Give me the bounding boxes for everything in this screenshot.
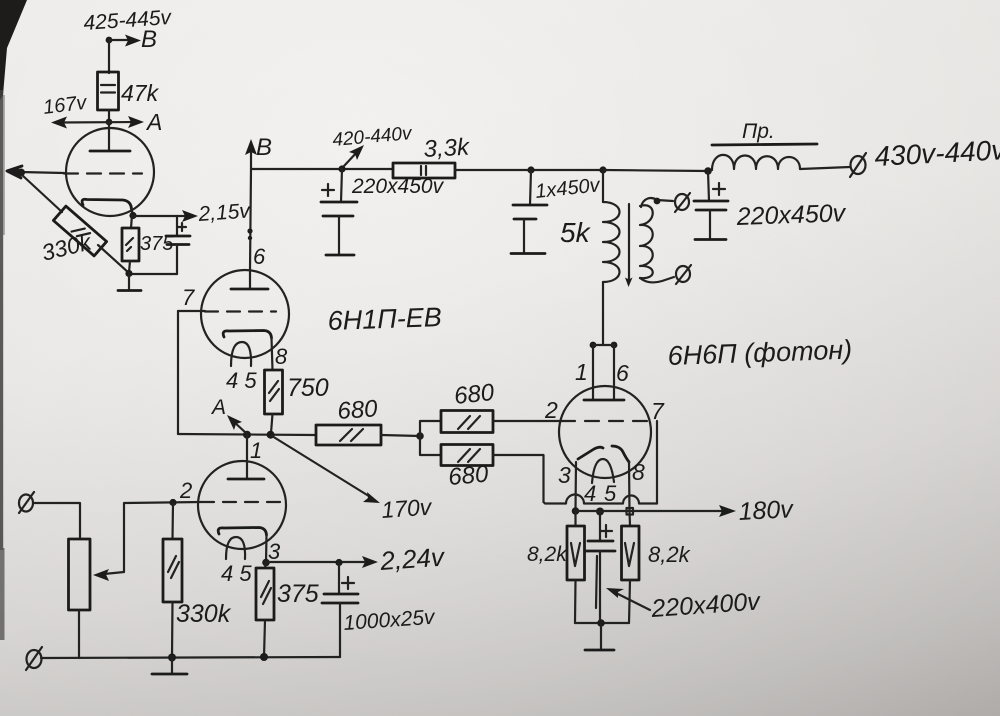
svg-text:A: A (210, 396, 226, 419)
svg-text:5k: 5k (560, 217, 592, 248)
svg-text:2: 2 (544, 397, 558, 423)
label 220x400v (649, 587, 762, 623)
svg-text:1: 1 (250, 438, 262, 463)
label 1x450v (534, 174, 601, 203)
label 375 (R12) (277, 580, 319, 608)
label 6Н1П-ЕВ (327, 302, 442, 336)
transformer T1 secondary (640, 198, 674, 283)
svg-text:7: 7 (651, 398, 665, 424)
label 330k (39, 228, 95, 266)
svg-text:170v: 170v (381, 493, 434, 523)
resistor R1 47k (98, 72, 119, 110)
label 170v (381, 493, 434, 523)
V1 grid (dashed) (64, 172, 142, 174)
ground G4 (695, 238, 726, 241)
svg-text:430v-440v: 430v-440v (874, 134, 1000, 172)
wire 2,24v tap (266, 556, 378, 568)
V4 anode pair leads (590, 342, 618, 400)
label 3,3k (423, 134, 472, 163)
svg-text:3: 3 (558, 462, 571, 488)
output terminal phi (850, 153, 866, 177)
180v rail (572, 505, 736, 517)
label 2,15v (197, 199, 252, 226)
label 47k (121, 80, 160, 106)
node N4 (output cap tap) (704, 167, 712, 175)
resistor R5 750 (265, 338, 283, 433)
svg-text:A: A (145, 109, 162, 135)
label pin 3 (V3) (268, 539, 281, 564)
label A (145, 109, 162, 135)
label pin 6 (V4) (616, 360, 629, 386)
svg-text:330k: 330k (176, 600, 232, 628)
node K1 bottom junction (125, 270, 132, 289)
label pin 2 (V4) (544, 397, 558, 423)
V3 anode plate (228, 478, 264, 481)
choke L1 (Пр.) (712, 144, 817, 170)
ground G2 (326, 254, 354, 257)
label pin 7 (V4) (651, 398, 665, 424)
capacitor C4 220x450v (output) (694, 171, 728, 238)
wire B+ rail left (251, 168, 393, 170)
label 220x450v (output) (735, 199, 847, 231)
label 680 (R6) (337, 395, 379, 425)
label pin 1 (V4) (575, 359, 588, 385)
wire B+ rail right (455, 169, 603, 171)
resistor R11 330k (V3 grid) (163, 499, 182, 657)
svg-text:180v: 180v (738, 495, 795, 526)
resistor R2 375 (V1 cathode bias) (122, 215, 139, 272)
wire V2 grid to node A (178, 311, 205, 434)
svg-text:5: 5 (604, 481, 617, 506)
node N3 (transformer tap) (599, 166, 606, 173)
capacitor C6 1000x25v (322, 562, 358, 657)
wire R1 to node A1 (108, 110, 110, 122)
label pin 8 (V2) (275, 344, 288, 369)
wire V3 grid to pot wiper (93, 502, 201, 581)
svg-text:8,2k: 8,2k (648, 542, 691, 567)
label pin 1 (V3) (250, 438, 262, 463)
V4 cathode right (612, 446, 629, 462)
label 4 5 (V3 heater) (221, 561, 252, 586)
input terminal phi (19, 492, 34, 513)
svg-text:3,3k: 3,3k (423, 134, 472, 163)
label B (supply net) (141, 26, 157, 53)
potentiometer P1 (69, 539, 91, 658)
node A with double arrow (51, 116, 144, 129)
svg-text:4 5: 4 5 (226, 368, 257, 393)
node N2 (1x450 tap) (527, 166, 534, 173)
svg-text:В: В (141, 26, 157, 53)
wire node B to resistor R1 (108, 40, 110, 73)
svg-text:3: 3 (268, 539, 281, 564)
capacitor C5 220x400v (585, 511, 615, 623)
V1 grid lead with input arrow (7, 166, 64, 178)
label 1000x25v (343, 606, 437, 635)
resistor R10 8,2k (right) (622, 511, 640, 623)
V3 heater arc (226, 537, 245, 559)
arrow 170v (272, 436, 380, 503)
label 6Н6П (фотон) (667, 335, 852, 371)
svg-text:220x450v: 220x450v (735, 199, 847, 231)
svg-text:6: 6 (253, 244, 266, 269)
label 8,2k (left) (527, 543, 568, 566)
V3 grid (dashed) (201, 501, 284, 503)
capacitor C1 (cathode bypass) (131, 216, 190, 274)
label pin 3 (V4) (558, 462, 571, 488)
arrow to node label A (227, 415, 246, 433)
svg-text:2: 2 (179, 478, 192, 503)
resistor R6 680 (316, 425, 381, 445)
wire B-node to arrow B (106, 35, 141, 47)
capacitor C3 1x450v (513, 170, 547, 252)
svg-text:375: 375 (277, 580, 319, 608)
label pin 7 (V2) (182, 285, 195, 310)
wire R7 to V4 grid (493, 420, 562, 422)
ground terminal phi (bottom) (26, 647, 42, 670)
svg-text:680: 680 (447, 461, 490, 491)
svg-text:2,15v: 2,15v (197, 199, 252, 226)
transformer T1 core (625, 204, 633, 287)
svg-text:750: 750 (287, 374, 329, 402)
tube V2 envelope 6Н1П-ЕВ (201, 270, 289, 358)
label pin 6 (V2) (253, 244, 266, 269)
V4 grid (dashed) (561, 420, 650, 422)
V3 cathode (218, 528, 266, 536)
ground G5 (585, 649, 614, 652)
svg-text:Пр.: Пр. (742, 120, 775, 143)
V4 heater arch (592, 459, 614, 483)
label 330k (R11) (176, 600, 232, 628)
B supply arrow (middle) (245, 139, 257, 169)
label 750 (287, 374, 329, 402)
svg-text:680: 680 (337, 395, 379, 425)
V4 cathode bottom rail (575, 619, 629, 649)
svg-text:6: 6 (616, 360, 629, 386)
ground G3 (511, 252, 545, 255)
hop wire (cathode return crossing) (544, 421, 658, 504)
wire V1 cathode to node K1 (129, 209, 136, 219)
label 5 (V4) (604, 481, 617, 506)
svg-text:6Н1П-ЕВ: 6Н1П-ЕВ (327, 302, 442, 336)
secondary terminal phi top (675, 193, 690, 212)
secondary terminal phi bottom (676, 265, 691, 284)
V1 cathode (82, 199, 131, 209)
label 8,2k (right) (648, 542, 691, 567)
capacitor C2 220x450v (321, 169, 357, 254)
label B (256, 134, 272, 161)
svg-text:8: 8 (275, 344, 288, 369)
node N1 (420-440v tap) (338, 165, 345, 172)
resistor R7 680 (upper of pair) (420, 411, 493, 437)
svg-text:47k: 47k (121, 80, 160, 106)
label 5k (560, 217, 592, 248)
label 375 (140, 233, 174, 255)
wire node A to V3 anode (246, 435, 248, 479)
resistor R3 330k (grid leak, diagonal) (22, 175, 129, 273)
ground G6 (152, 657, 187, 674)
resistor R4 3,3k (393, 163, 455, 178)
photo edge artifacts (decorative) (0, 0, 27, 640)
arrow to C5 (606, 588, 650, 610)
svg-text:2,24v: 2,24v (378, 541, 447, 576)
label A (node) (210, 396, 226, 419)
label 220x450v (351, 175, 445, 198)
label 4 (V4) (584, 481, 596, 506)
tube V1 envelope (66, 128, 154, 216)
label 680 (R7) (453, 379, 496, 410)
V2 cathode (223, 331, 271, 339)
transformer T1 primary (603, 170, 620, 345)
resistor R12 375 (V3 cathode) (256, 562, 274, 657)
V1 anode plate (90, 150, 130, 153)
svg-text:7: 7 (182, 285, 195, 310)
wire 2,15v tap (133, 210, 198, 222)
bottom ground rail (41, 653, 340, 662)
resistor R9 8,2k (left) (567, 511, 585, 623)
V4 cathode left (578, 447, 603, 459)
wire R8 to hop wire (493, 455, 544, 502)
V2 anode plate (231, 288, 268, 291)
label 2,24v (378, 541, 447, 576)
label 430v-440v (874, 134, 1000, 172)
wire node to V1 anode (108, 122, 110, 151)
label pin 8 (V4) (632, 459, 645, 485)
svg-text:8: 8 (632, 459, 645, 485)
tube V4 envelope 6Н6П (559, 386, 651, 478)
V3 cathode lead to node K3 (262, 535, 270, 566)
V4 anode plate (584, 399, 624, 402)
label pin 2 (V3) (179, 478, 192, 503)
wire input to pot (33, 503, 80, 539)
V4 cathode leads down (576, 462, 630, 511)
label 180v (738, 495, 795, 526)
wire choke to output terminal (800, 167, 850, 169)
label 420-440v (332, 123, 414, 151)
label 680 (R8) (447, 461, 490, 491)
ground G1 (118, 289, 141, 292)
node A bus wire (178, 431, 316, 439)
svg-text:8,2k: 8,2k (527, 543, 568, 566)
svg-text:680: 680 (453, 379, 496, 410)
wire R6 to node N5 (381, 432, 424, 440)
tube V3 envelope (198, 461, 286, 549)
svg-text:1: 1 (575, 359, 588, 385)
label Пр. (742, 120, 775, 143)
label 4 5 (V2 heater) (226, 368, 257, 393)
V2 heater arc (231, 342, 251, 366)
wire B+ down to V2 anode (247, 169, 252, 289)
label 425-445v (83, 6, 173, 35)
label 167v (42, 92, 89, 119)
wire N3 to output node (603, 170, 708, 171)
svg-text:4 5: 4 5 (221, 561, 252, 586)
svg-text:4: 4 (584, 481, 596, 506)
svg-text:В: В (256, 134, 272, 161)
V2 grid (dashed) (205, 310, 276, 312)
resistor R8 680 (lower of pair) (420, 436, 493, 466)
arrow 420-440v (344, 145, 364, 166)
